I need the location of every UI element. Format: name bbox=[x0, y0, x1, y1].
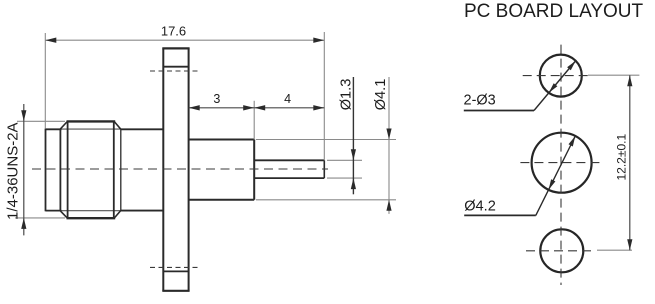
svg-text:3: 3 bbox=[213, 92, 220, 106]
svg-text:17.6: 17.6 bbox=[161, 24, 186, 39]
svg-text:4: 4 bbox=[284, 92, 291, 106]
svg-text:12.2±0.1: 12.2±0.1 bbox=[615, 134, 629, 181]
svg-text:PC BOARD LAYOUT: PC BOARD LAYOUT bbox=[464, 1, 644, 22]
svg-text:Ø4.2: Ø4.2 bbox=[464, 199, 496, 215]
svg-text:1/4-36UNS-2A: 1/4-36UNS-2A bbox=[5, 122, 22, 220]
svg-text:2-Ø3: 2-Ø3 bbox=[464, 93, 496, 109]
svg-text:Ø1.3: Ø1.3 bbox=[338, 79, 354, 111]
svg-text:Ø4.1: Ø4.1 bbox=[373, 79, 389, 111]
